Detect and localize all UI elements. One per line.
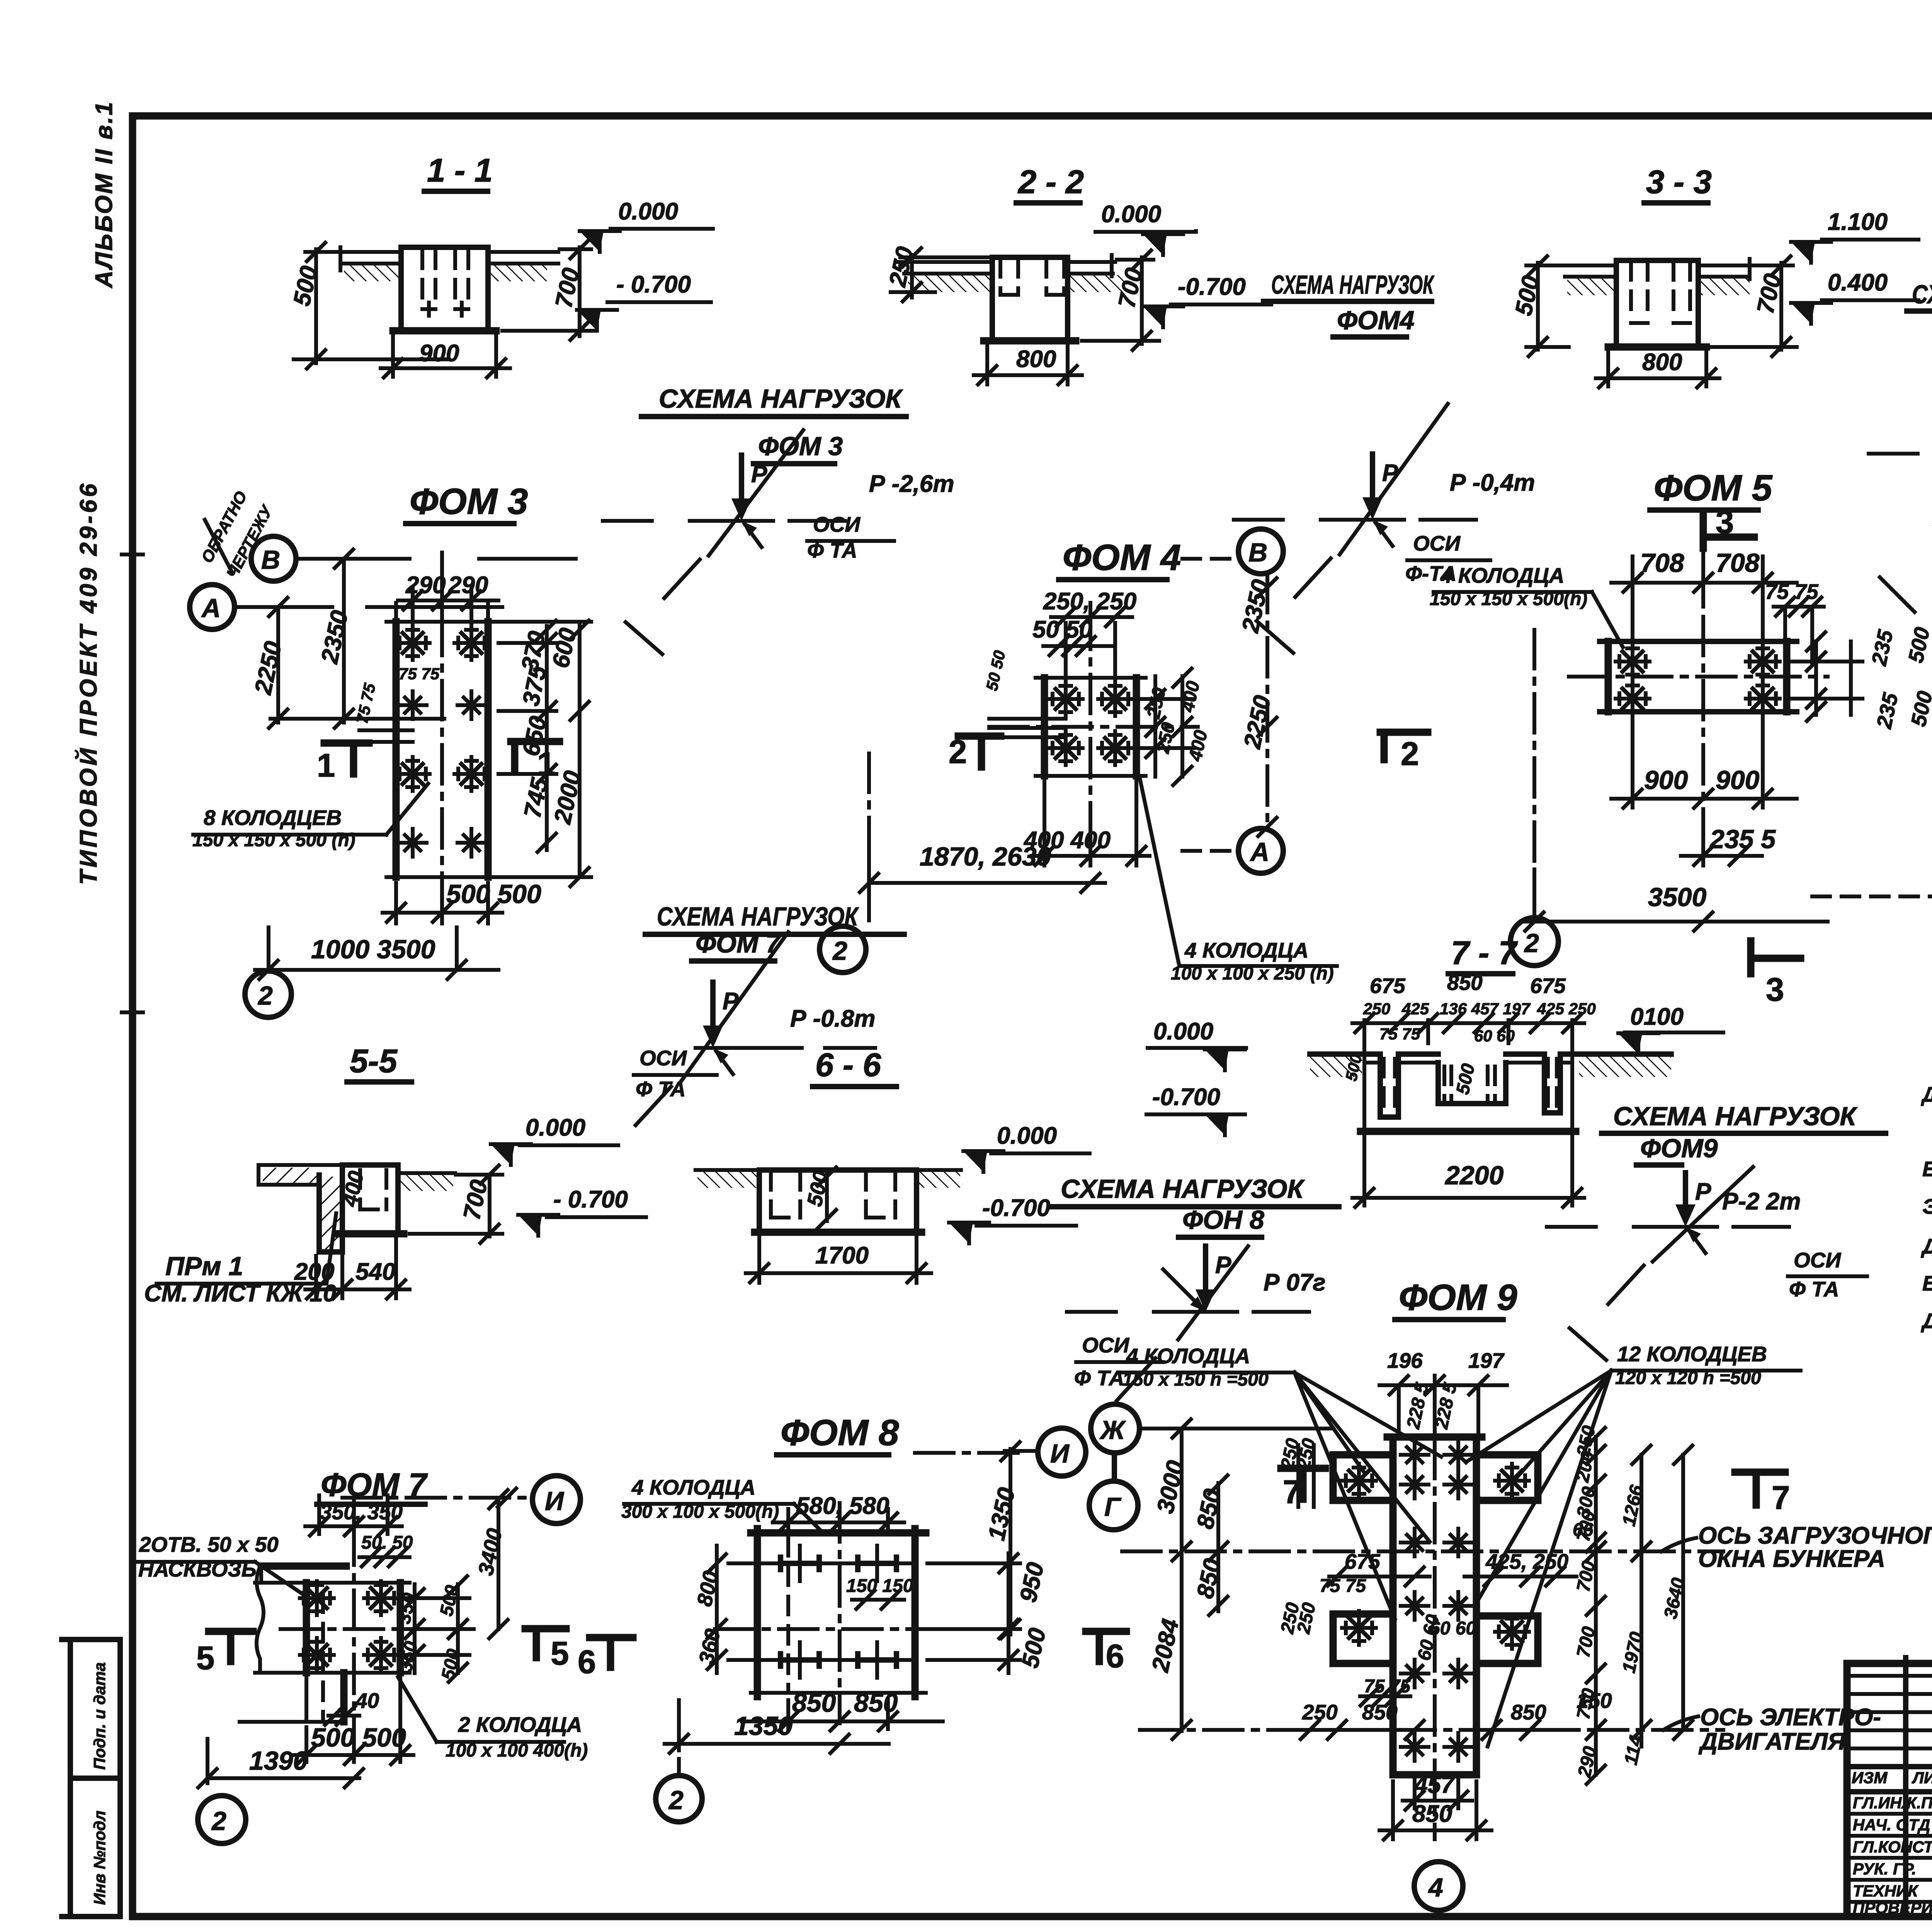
- svg-text:ОСИ: ОСИ: [639, 1046, 687, 1070]
- small dim 75 75: [1774, 605, 1824, 609]
- body 7-7: [1310, 1051, 1671, 1057]
- svg-text:850: 850: [1447, 971, 1483, 995]
- axis circle 2 left: [1532, 630, 1536, 916]
- svg-text:Р -2,6т: Р -2,6т: [869, 471, 954, 497]
- svg-text:Ф ТА: Ф ТА: [636, 1077, 685, 1101]
- svg-text:ПРм 1: ПРм 1: [165, 1252, 243, 1281]
- title scheme FOM4: [1264, 270, 1435, 337]
- svg-text:500 500: 500 500: [311, 1723, 406, 1752]
- svg-text:150 х 150 х 500(h): 150 х 150 х 500(h): [1430, 589, 1587, 609]
- svg-text:2: 2: [832, 936, 847, 966]
- svg-text:4 КОЛОДЦА: 4 КОЛОДЦА: [1184, 938, 1308, 962]
- ground right: [398, 1171, 455, 1175]
- svg-text:2 КОЛОДЦА: 2 КОЛОДЦА: [458, 1713, 582, 1736]
- header row izm list: [1847, 1767, 1932, 1792]
- svg-text:150 х 150 h =500: 150 х 150 h =500: [1122, 1369, 1269, 1390]
- right rotated dims 250/250 400/400: [1138, 676, 1194, 777]
- svg-text:Р 07г: Р 07г: [1264, 1269, 1326, 1296]
- svg-text:СХЕМА НАГРУЗОК: СХЕМА НАГРУЗОК: [657, 902, 859, 931]
- svg-text:675: 675: [1370, 974, 1406, 998]
- dim 900 below 1-1: [381, 336, 510, 377]
- svg-text:2: 2: [668, 1786, 684, 1815]
- right rotated dims 950/500 + 1350: [927, 1553, 1020, 1673]
- anchor wells dashed 1-1: [422, 250, 468, 305]
- svg-text:457: 457: [1413, 1772, 1455, 1798]
- svg-text:1: 1: [317, 747, 335, 784]
- wings: [1333, 1455, 1393, 1500]
- svg-text:850: 850: [792, 1688, 836, 1718]
- right rotated dims 350/350 500/500: [402, 1584, 469, 1673]
- section mark 1 left: [324, 743, 369, 774]
- svg-text:ЭПОКСИДНОМ КЛЕЕ, СОГЛАСНО ИН: ЭПОКСИДНОМ КЛЕЕ, СОГЛАСНО ИНСТРУКЦИИ СН …: [1922, 1194, 1932, 1218]
- right dim chain 250..290: [1596, 1437, 1641, 1775]
- dim 400 400 below: [1032, 781, 1150, 866]
- svg-text:0.000: 0.000: [1101, 201, 1161, 228]
- svg-text:120 х 120 h =500: 120 х 120 h =500: [1615, 1368, 1761, 1388]
- svg-text:7 - 7: 7 - 7: [1451, 935, 1518, 971]
- svg-text:СХЕМА НАГРУЗОК: СХЕМА НАГРУЗОК: [659, 384, 903, 413]
- wall hatched: [319, 1165, 342, 1252]
- svg-text:1350: 1350: [734, 1711, 793, 1741]
- section mark 3 top: [1703, 515, 1754, 548]
- svg-text:ДВИГАТЕЛЯ: ДВИГАТЕЛЯ: [1698, 1728, 1846, 1755]
- leader fans: [1294, 1372, 1441, 1619]
- svg-text:2200: 2200: [1444, 1161, 1503, 1190]
- svg-text:5: 5: [196, 1640, 214, 1677]
- svg-text:ОСЬ ЗАГРУЗОЧНОГО: ОСЬ ЗАГРУЗОЧНОГО: [1698, 1522, 1932, 1549]
- anchor wells dashed 3-3: [1631, 262, 1690, 319]
- left table rows upper: [1847, 1676, 1932, 1748]
- svg-text:100 х 100 400(h): 100 х 100 400(h): [446, 1740, 588, 1761]
- section mark T2 right: [1380, 732, 1428, 760]
- svg-text:60 60: 60 60: [1474, 1027, 1515, 1045]
- plan body FOM3: [396, 622, 488, 877]
- dim 700 right 1-1: [502, 247, 595, 336]
- section 2-2 body: [992, 257, 1068, 341]
- dim 2200 below: [1352, 1136, 1584, 1206]
- wells wings 4: [1342, 1464, 1376, 1498]
- svg-text:В: В: [1248, 538, 1267, 567]
- dim 250 250 above: [1051, 603, 1132, 692]
- section mark T7 right: [1735, 1472, 1785, 1505]
- dim 500 left 1-1: [294, 249, 448, 363]
- svg-text:ФОМ 3: ФОМ 3: [410, 481, 528, 522]
- svg-text:0.000: 0.000: [526, 1114, 585, 1141]
- svg-text:3500: 3500: [1648, 883, 1706, 912]
- svg-text:3: 3: [1766, 971, 1784, 1008]
- wells 4 (horizontal bars): [763, 1546, 837, 1581]
- body 6-6: [759, 1170, 917, 1232]
- svg-text:ФОМ4: ФОМ4: [1337, 306, 1414, 335]
- axis circle B right: [1812, 895, 1932, 898]
- svg-text:ФОМ 5: ФОМ 5: [1654, 468, 1773, 509]
- svg-text:2: 2: [211, 1806, 226, 1836]
- svg-text:500 500: 500 500: [446, 879, 541, 909]
- svg-text:6: 6: [578, 1644, 596, 1680]
- section marks 5 5 6: [209, 1631, 253, 1662]
- dim 2250 left: [270, 607, 348, 723]
- svg-text:250, 250: 250, 250: [1043, 588, 1136, 615]
- svg-text:2: 2: [257, 981, 273, 1010]
- svg-text:ТИПОВОЙ ПРОЕКТ 409 29-66: ТИПОВОЙ ПРОЕКТ 409 29-66: [75, 481, 102, 885]
- svg-text:675: 675: [1345, 1549, 1381, 1573]
- svg-text:2: 2: [949, 734, 967, 770]
- lower-left stamp boxes: [62, 1639, 120, 1917]
- svg-text:197: 197: [1468, 1349, 1505, 1372]
- right dim chain 370/375/650/745: [498, 626, 556, 850]
- svg-text:2: 2: [1524, 929, 1539, 958]
- dim 800 below 2-2: [974, 346, 1082, 384]
- section mark T1 right: [511, 742, 560, 769]
- svg-text:8 КОЛОДЦЕВ: 8 КОЛОДЦЕВ: [204, 806, 342, 830]
- section 1-1 body: [401, 247, 488, 331]
- svg-text:1: 1: [537, 746, 555, 782]
- svg-text:СХЕМА НАГРУЗОК: СХЕМА НАГРУЗОК: [1613, 1102, 1857, 1131]
- svg-text:ГЛ.ИНЖ.ПР: ГЛ.ИНЖ.ПР: [1853, 1794, 1932, 1812]
- wells 4: [1616, 645, 1650, 679]
- dim 50 50 above: [1043, 644, 1113, 648]
- svg-text:800: 800: [1642, 349, 1682, 376]
- section mark 3 bottom: [1751, 941, 1801, 974]
- svg-text:0.400: 0.400: [1828, 269, 1888, 296]
- dim 800 below 3-3: [1596, 352, 1719, 386]
- svg-text:Р: Р: [1695, 1179, 1711, 1205]
- svg-text:ФОМ 9: ФОМ 9: [1399, 1277, 1517, 1318]
- svg-text:Ф ТА: Ф ТА: [807, 538, 857, 562]
- svg-text:900: 900: [419, 340, 459, 367]
- svg-text:150 150: 150 150: [846, 1576, 913, 1596]
- svg-text:196: 196: [1387, 1349, 1423, 1372]
- axis circle 2: [867, 753, 871, 923]
- svg-text:75 75: 75 75: [399, 665, 440, 683]
- svg-text:75 75: 75 75: [1379, 1025, 1420, 1043]
- axis circles I Zh G: [1038, 1428, 1086, 1476]
- svg-text:ФОМ 4: ФОМ 4: [1063, 537, 1181, 578]
- svg-text:Ф ТА: Ф ТА: [1789, 1277, 1839, 1301]
- svg-text:ДО БЕТОНИРОВАНИЯ СВЕРИТЬ ПО УС: ДО БЕТОНИРОВАНИЯ СВЕРИТЬ ПО УСТАНАВЛИВАЕ…: [1921, 1082, 1932, 1106]
- svg-text:708: 708: [1640, 548, 1684, 578]
- section mark 6 left bottom: [1086, 1631, 1126, 1662]
- svg-text:СХЕМА НАГРУЗОК: СХЕМА НАГРУЗОК: [1061, 1174, 1305, 1204]
- svg-text:75 75: 75 75: [1765, 580, 1819, 604]
- svg-text:1000 3500: 1000 3500: [311, 935, 435, 964]
- svg-text:Р-2 2т: Р-2 2т: [1722, 1188, 1801, 1215]
- plan body FOM8: [751, 1529, 926, 1697]
- dim 500 500 below: [294, 1677, 413, 1762]
- dim 457 850 bottom: [1403, 1777, 1472, 1808]
- svg-text:540: 540: [355, 1259, 395, 1285]
- dim 700 right 2-2: [1082, 257, 1159, 344]
- plan body FOM5: [1608, 641, 1787, 712]
- svg-text:1870, 2630: 1870, 2630: [920, 842, 1051, 871]
- I axis to right circle: [915, 1451, 1020, 1455]
- svg-text:ТЕХНИК: ТЕХНИК: [1853, 1882, 1919, 1900]
- svg-text:- 0.700: - 0.700: [553, 1186, 628, 1213]
- axis circle I (between FOM7/FOM8): [532, 1476, 580, 1524]
- svg-text:ОСИ: ОСИ: [1082, 1333, 1130, 1357]
- svg-text:708: 708: [1716, 548, 1760, 578]
- svg-text:ЛИСТ: ЛИСТ: [1912, 1769, 1932, 1787]
- svg-text:580, 580: 580, 580: [796, 1493, 889, 1519]
- wells central 12: [1401, 1441, 1429, 1469]
- svg-text:100 х 100 х 250 (h): 100 х 100 х 250 (h): [1171, 963, 1334, 984]
- dim 1700 below: [746, 1236, 931, 1283]
- svg-text:1390: 1390: [249, 1746, 308, 1776]
- left dims 3000 850 850 2084: [1182, 1429, 1218, 1731]
- pedestal: [342, 1165, 398, 1234]
- svg-text:250: 250: [1363, 1000, 1390, 1018]
- svg-text:235 5: 235 5: [1709, 825, 1776, 854]
- svg-text:Р -0.8т: Р -0.8т: [790, 1005, 876, 1032]
- svg-text:-0.700: -0.700: [1152, 1084, 1220, 1111]
- svg-text:ГЛ.КОНСТР: ГЛ.КОНСТР: [1853, 1838, 1932, 1856]
- svg-text:900: 900: [1644, 765, 1688, 795]
- long axes: [1122, 1549, 1723, 1553]
- dim 250 left 2-2: [891, 255, 993, 298]
- svg-text:АЛЬБОМ II в.1: АЛЬБОМ II в.1: [91, 100, 117, 289]
- plan body FOM7: [261, 1566, 400, 1673]
- svg-text:4: 4: [1428, 1873, 1443, 1902]
- svg-text:1.100: 1.100: [1828, 209, 1888, 235]
- title block outer: [1847, 1663, 1932, 1917]
- svg-text:12 КОЛОДЦЕВ: 12 КОЛОДЦЕВ: [1617, 1342, 1767, 1366]
- axis circle 2 bottom: [245, 971, 291, 1017]
- dashed wells 6-6: [771, 1172, 895, 1218]
- wells 8: [396, 626, 430, 660]
- svg-text:Р -0,4т: Р -0,4т: [1450, 469, 1535, 496]
- wells 4: [300, 1581, 334, 1615]
- dim 1350 below: [665, 1712, 889, 1750]
- svg-text:4 КОЛОДЦА: 4 КОЛОДЦА: [1126, 1344, 1250, 1368]
- svg-text:7: 7: [1283, 1474, 1301, 1510]
- dim 500 left 3-3: [1526, 263, 1615, 350]
- anchor wells dashed 2-2: [1000, 259, 1064, 295]
- axis circle 4: [1414, 1862, 1463, 1910]
- svg-text:5: 5: [551, 1635, 569, 1672]
- right dim chain 600/2000: [500, 622, 591, 877]
- svg-text:3 - 3: 3 - 3: [1646, 164, 1712, 201]
- svg-text:ОСИ: ОСИ: [1413, 531, 1461, 555]
- crossing ticks on left border: [122, 554, 143, 1012]
- svg-text:Ф ТА: Ф ТА: [1074, 1366, 1124, 1390]
- axis circle A: [190, 585, 235, 629]
- body 5-5: [259, 1165, 398, 1185]
- svg-text:БОЛТАМИ ЗАДЕЛАННЫМИ В КОЛОД: БОЛТАМИ ЗАДЕЛАННЫМИ В КОЛОДЦЫ ПОКАЗАННЫЕ…: [1922, 1271, 1932, 1295]
- svg-text:ИЗМ: ИЗМ: [1852, 1769, 1888, 1787]
- svg-text:ДОПУСКАЕТСЯ КРЕПЛЕНИЕ ОБОРУД: ДОПУСКАЕТСЯ КРЕПЛЕНИЕ ОБОРУДОВАНИЯ К ФУН…: [1921, 1234, 1932, 1258]
- left small table verticals: [1906, 1658, 1932, 1917]
- dim 2350 left: [344, 559, 444, 723]
- svg-text:800: 800: [1016, 346, 1056, 372]
- svg-text:СХЕМА НАГРУЗОК: СХЕМА НАГРУЗОК: [1271, 270, 1435, 299]
- svg-text:290: 290: [448, 572, 488, 599]
- svg-text:В: В: [261, 545, 280, 575]
- svg-text:Подп. и дата: Подп. и дата: [90, 1662, 109, 1770]
- svg-text:Инв №подл: Инв №подл: [90, 1811, 109, 1905]
- section mark 2 left: [958, 736, 1001, 767]
- svg-text:40: 40: [355, 1689, 379, 1713]
- svg-text:ФОМ9: ФОМ9: [1640, 1134, 1718, 1163]
- svg-text:И: И: [1050, 1439, 1070, 1468]
- dim 580 580 above: [773, 1509, 904, 1530]
- right rotated dims 235/500 x2: [1789, 641, 1862, 715]
- svg-text:НАЧ. ОТД: НАЧ. ОТД: [1853, 1816, 1930, 1834]
- svg-text:0.000: 0.000: [1153, 1018, 1213, 1045]
- dim 1390 below: [207, 1739, 359, 1783]
- svg-text:6: 6: [1106, 1638, 1124, 1675]
- svg-text:ФОН 8: ФОН 8: [1182, 1205, 1264, 1235]
- svg-text:РУК. ГР.: РУК. ГР.: [1853, 1860, 1916, 1878]
- dims 200 540 below: [305, 1238, 410, 1298]
- svg-text:Ж: Ж: [1099, 1415, 1126, 1445]
- svg-text:ФОМ 7: ФОМ 7: [696, 929, 782, 958]
- svg-text:ФОМ 8: ФОМ 8: [781, 1412, 899, 1453]
- svg-text:СХЕМА НАГРУЗОК: СХЕМА НАГРУЗОК: [1912, 280, 1932, 309]
- svg-text:2ОТВ. 50 х 50: 2ОТВ. 50 х 50: [139, 1532, 279, 1556]
- svg-text:350, 350: 350, 350: [320, 1500, 403, 1524]
- left vertical dim for FOM8 right: [1009, 1451, 1012, 1634]
- svg-text:5-5: 5-5: [350, 1043, 398, 1080]
- left protrusion lines + 50/50: [989, 719, 1066, 737]
- svg-text:66: 66: [1573, 1520, 1594, 1540]
- svg-text:900: 900: [1716, 765, 1760, 795]
- left rotated dims 800/360: [717, 1546, 761, 1673]
- svg-text:ОСИ: ОСИ: [813, 512, 861, 536]
- svg-text:0100: 0100: [1630, 1003, 1684, 1030]
- plan body FOM4: [1044, 678, 1136, 776]
- dim 2355 below: [1681, 811, 1762, 866]
- dim 850 850 below: [742, 1700, 943, 1729]
- svg-text:1 - 1: 1 - 1: [427, 152, 493, 189]
- dim 900 900 below: [1611, 715, 1797, 808]
- title scheme FOM5: [1907, 280, 1932, 347]
- svg-text:4 КОЛОДЦА: 4 КОЛОДЦА: [631, 1475, 755, 1499]
- svg-text:3: 3: [1716, 504, 1734, 541]
- svg-text:4 КОЛОДЦА: 4 КОЛОДЦА: [1440, 563, 1564, 587]
- svg-text:ЕТСЯ ГЛАДКИМИ БОЛТАМИ , СОЕД: ЕТСЯ ГЛАДКИМИ БОЛТАМИ , СОЕДИНЕННЫМИ С Б…: [1922, 1157, 1932, 1181]
- signature rows: [1847, 1814, 1932, 1902]
- dim 1870,2630 below: [869, 850, 1105, 885]
- svg-text:ОКНА БУНКЕРА: ОКНА БУНКЕРА: [1698, 1546, 1885, 1572]
- svg-text:-0.700: -0.700: [1178, 274, 1246, 300]
- svg-text:- 0.700: - 0.700: [616, 271, 691, 298]
- dim 3500 below: [1522, 869, 1828, 922]
- section mark 7 left: [1281, 1468, 1325, 1499]
- axis circle B: [251, 536, 296, 581]
- svg-text:675: 675: [1530, 974, 1566, 998]
- svg-text:ДАННОМ ЛИСТЕ.: ДАННОМ ЛИСТЕ.: [1921, 1309, 1932, 1333]
- svg-text:2: 2: [1401, 736, 1419, 772]
- svg-text:СМ. ЛИСТ КЖ 10: СМ. ЛИСТ КЖ 10: [144, 1280, 336, 1307]
- svg-text:А: А: [1250, 837, 1269, 867]
- svg-text:850: 850: [1362, 1700, 1398, 1724]
- svg-text:ОСИ: ОСИ: [1794, 1248, 1842, 1272]
- svg-text:0.000: 0.000: [618, 198, 678, 225]
- svg-text:850: 850: [854, 1688, 898, 1718]
- axis circle 2: [198, 1796, 246, 1844]
- svg-text:-0.700: -0.700: [982, 1195, 1050, 1221]
- svg-text:290: 290: [405, 572, 446, 599]
- svg-text:Г: Г: [1104, 1492, 1122, 1522]
- central strip FOM9: [1387, 1437, 1482, 1775]
- dim 500 500 below: [383, 883, 502, 923]
- section 3-3 body: [1616, 260, 1698, 347]
- svg-text:850: 850: [1412, 1801, 1452, 1827]
- dim 708 708 above: [1611, 556, 1797, 649]
- svg-text:0.000: 0.000: [997, 1122, 1057, 1149]
- dim 290 290 above: [398, 580, 498, 634]
- svg-text:7: 7: [1772, 1480, 1790, 1516]
- svg-text:ОСЬ ЭЛЕКТРО-: ОСЬ ЭЛЕКТРО-: [1700, 1704, 1881, 1731]
- svg-text:50 50: 50 50: [1032, 616, 1092, 643]
- svg-text:А: А: [201, 594, 221, 623]
- svg-text:ПРОВЕРИЛ: ПРОВЕРИЛ: [1853, 1899, 1932, 1917]
- svg-text:300 х 100 х 500(h): 300 х 100 х 500(h): [621, 1502, 779, 1522]
- svg-text:1700: 1700: [815, 1242, 869, 1269]
- dim 700 right 3-3: [1712, 263, 1797, 350]
- svg-text:2 - 2: 2 - 2: [1017, 164, 1084, 201]
- wells 4: [1049, 682, 1083, 716]
- right axis verticals + circles B A: [1265, 574, 1269, 829]
- dim 3400 vertical right: [497, 1499, 500, 1629]
- dim 350 350 above: [305, 1495, 402, 1534]
- svg-text:6 - 6: 6 - 6: [815, 1047, 881, 1083]
- axis circle 2: [656, 1776, 702, 1822]
- dim 1000 3500 below: [255, 927, 498, 970]
- svg-text:150 х 150 х 500 (h): 150 х 150 х 500 (h): [192, 830, 355, 850]
- ground hatch 1-1: [344, 265, 400, 281]
- dim 700 right: [410, 1175, 502, 1236]
- svg-text:И: И: [545, 1486, 565, 1516]
- svg-text:НАСКВОЗЬ: НАСКВОЗЬ: [138, 1557, 257, 1581]
